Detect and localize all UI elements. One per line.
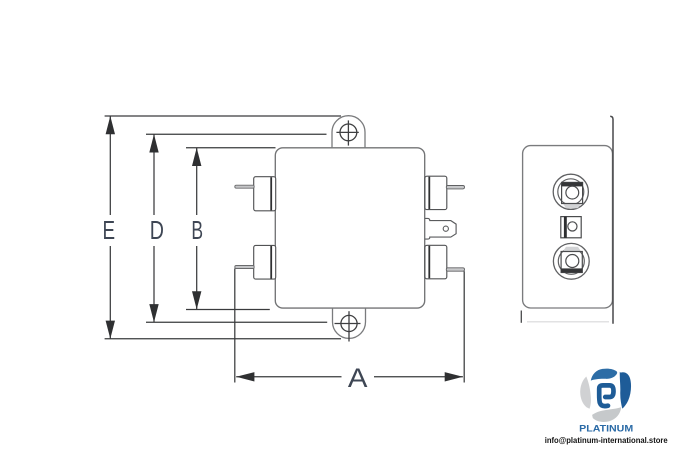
dimension A right extension line (463, 271, 465, 382)
svg-text:PLATINUM: PLATINUM (579, 424, 633, 434)
right upper terminal band (428, 177, 430, 209)
dimension D bottom arrowhead (149, 304, 158, 322)
bottom screw terminal clamp bar (561, 268, 582, 272)
svg-text:A: A (348, 362, 368, 393)
left upper terminal band (270, 177, 272, 210)
dimension B bottom extension line (186, 309, 270, 311)
right lower terminal band (428, 246, 430, 278)
left upper terminal block (254, 177, 276, 211)
left lower lead wire (235, 266, 254, 269)
left upper lead wire (235, 185, 254, 188)
bottom mounting tab (333, 308, 366, 338)
bottom mounting hole circle (341, 315, 357, 331)
dimension D top extension line (146, 133, 327, 135)
right lower terminal block (425, 245, 447, 278)
bottom screw head (566, 255, 579, 268)
right upper lead wire (446, 186, 464, 189)
dimension B line (vertical, lower segment) (196, 246, 198, 309)
dimension E line (vertical, upper segment) (109, 116, 111, 215)
svg-text:info@platinum-international.st: info@platinum-international.store (545, 435, 668, 445)
side view flange edge (610, 116, 613, 324)
svg-text:E: E (103, 216, 116, 245)
bottom screw terminal inner circle (558, 248, 584, 274)
left lower terminal block (254, 245, 276, 279)
dimension B top extension line (186, 147, 276, 149)
dimension A line (left segment) (236, 376, 341, 378)
side view body (523, 146, 613, 308)
dimension D top arrowhead (149, 134, 158, 152)
dimension B line (vertical, upper segment) (196, 148, 198, 215)
dimension D line (vertical, upper segment) (153, 134, 155, 215)
dimension D bottom extension line (146, 321, 327, 323)
dimension E line (vertical, lower segment) (109, 246, 111, 339)
filter body (front view) (275, 148, 424, 308)
spade terminal hole (443, 226, 448, 231)
top screw terminal square (562, 182, 583, 203)
top screw terminal inner circle (558, 179, 584, 205)
left lower terminal band (270, 246, 272, 279)
dimension E bottom extension line (105, 338, 341, 340)
dimension E top extension line (105, 115, 341, 117)
dimension B bottom arrowhead (192, 291, 201, 309)
bottom screw terminal square (561, 252, 582, 273)
logo petal bottom (gray) (592, 407, 621, 422)
bottom mounting hole crosshair horizontal (335, 323, 361, 325)
top screw terminal outer circle (553, 174, 588, 209)
center terminal hole (568, 222, 577, 231)
top screw head (566, 186, 579, 199)
side view flange lower left edge (520, 311, 522, 323)
dimension B top arrowhead (192, 148, 201, 166)
bottom screw terminal outer circle (553, 243, 589, 279)
dimension E top arrowhead (106, 116, 115, 134)
top mounting hole crosshair horizontal (336, 131, 358, 133)
top mounting hole crosshair vertical (347, 120, 349, 145)
right upper terminal block (425, 176, 447, 209)
logo petal top (blue) (591, 369, 618, 381)
svg-text:B: B (191, 216, 203, 245)
dimension A right arrowhead (445, 372, 463, 381)
spade quick-connect terminal (425, 218, 456, 239)
logo letter P (599, 385, 613, 406)
top screw terminal clamp bar (562, 182, 583, 186)
right lower lead wire (446, 268, 464, 271)
top mounting tab (332, 116, 365, 148)
dimension E bottom arrowhead (106, 321, 115, 339)
logo petal right (blue) (620, 372, 631, 409)
side view flange bottom edge (faint) (527, 321, 609, 323)
dimension A line (right segment) (374, 376, 463, 378)
svg-text:D: D (150, 215, 164, 244)
top screw terminal seat shading (563, 204, 581, 209)
bottom mounting hole crosshair vertical (348, 311, 350, 341)
center terminal dark bar (564, 217, 567, 238)
logo petal left (gray) (580, 377, 591, 409)
bottom screw terminal seat shading (563, 247, 581, 252)
dimension A left extension line (234, 269, 236, 383)
dimension D line (vertical, lower segment) (153, 246, 155, 322)
center terminal small block (561, 217, 581, 238)
dimension A left arrowhead (236, 372, 254, 381)
top mounting hole circle (340, 124, 357, 141)
